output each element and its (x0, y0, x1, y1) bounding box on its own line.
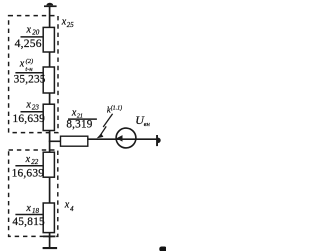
resistor x22 (fourth) (43, 152, 54, 177)
svg-text:(1.1): (1.1) (111, 105, 123, 112)
resistor x23 (third) (43, 104, 54, 130)
resistor x21 (horizontal branch) (61, 136, 88, 146)
node label x25 (61, 17, 74, 30)
svg-text:x: x (25, 99, 31, 110)
bottom-right mark (159, 247, 167, 251)
svg-text:22: 22 (31, 158, 39, 166)
svg-text:20: 20 (32, 29, 40, 37)
svg-text:вн: вн (144, 121, 150, 128)
svg-text:23: 23 (32, 104, 40, 112)
svg-text:x: x (64, 199, 70, 210)
svg-text:4: 4 (70, 206, 74, 213)
value label x(2)t-n / 35,235 (14, 58, 46, 86)
value label x22 / 16,639 (12, 154, 45, 180)
source label U вн (135, 113, 150, 128)
svg-text:8,319: 8,319 (66, 118, 92, 130)
dashed block boundary (lower subnetwork) (9, 150, 58, 236)
value label x20 / 4,256 (15, 25, 43, 50)
svg-text:x: x (19, 58, 25, 69)
wire horizontal branch right segment (87, 138, 157, 140)
current label k(1.1) (107, 105, 122, 115)
svg-text:(2): (2) (26, 58, 34, 65)
svg-text:x: x (26, 25, 32, 36)
svg-text:x: x (25, 203, 31, 214)
value label x18 / 45,815 (12, 203, 45, 228)
svg-text:45,815: 45,815 (12, 216, 45, 228)
resistor x(2) (second) (43, 67, 54, 93)
resistor x25 (top) (43, 27, 54, 52)
wire main vertical bus (49, 7, 51, 248)
value label x23 / 16,639 (13, 99, 46, 125)
svg-text:16,639: 16,639 (13, 113, 46, 125)
terminal arrow (right end) (156, 135, 161, 146)
ground (top earth symbol) (44, 3, 57, 7)
svg-text:4,256: 4,256 (15, 38, 42, 50)
source circle U (116, 128, 136, 148)
svg-text:35,235: 35,235 (14, 74, 46, 86)
svg-text:16,639: 16,639 (12, 168, 45, 180)
svg-text:t-н: t-н (25, 66, 32, 73)
dashed block boundary (upper subnetwork) (9, 16, 58, 133)
resistor x18 (fifth) (43, 203, 54, 233)
svg-text:25: 25 (67, 22, 74, 29)
ground (bottom earth symbol, clipped) (43, 247, 58, 249)
wire horizontal branch left stub (49, 140, 61, 142)
arrow inside source (points left) (116, 135, 122, 142)
dash segment crossing wire above bottom earth (43, 236, 55, 238)
svg-text:18: 18 (32, 207, 40, 215)
current arrow k(1.1) (lightning) (97, 114, 113, 139)
value label x21 / 8,319 (horizontal resistor) (66, 108, 97, 131)
node label x4 (64, 199, 74, 213)
svg-text:x: x (25, 154, 31, 165)
